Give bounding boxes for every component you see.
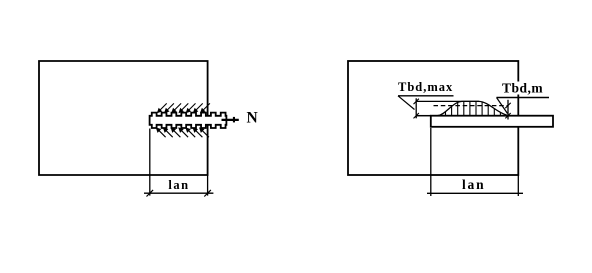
- tick at Tbd,max top: [414, 99, 419, 104]
- Tbd,max level line: [416, 100, 479, 102]
- tick at Tbd,m top: [505, 103, 510, 108]
- dimension line lan (left figure): [144, 192, 213, 194]
- lower bond-stress hatch arrows: [157, 128, 209, 137]
- leader for Tbd,max: [398, 96, 415, 110]
- svg-text:lan: lan: [462, 177, 485, 192]
- underline for Tbd,m: [497, 97, 550, 99]
- svg-text:N: N: [247, 109, 258, 126]
- force arrow N shaft: [222, 119, 239, 121]
- leader for Tbd,m: [497, 98, 508, 114]
- dashed mean level line Tbd,m: [434, 105, 508, 107]
- oblique tick right: [204, 190, 211, 197]
- force arrowhead: [233, 117, 235, 123]
- oblique tick left: [147, 190, 154, 197]
- baseline reference line left of bar: [416, 115, 431, 117]
- concrete block outline (left figure): [39, 61, 208, 175]
- concrete block outline (right figure): [348, 61, 518, 175]
- underline for Tbd,max: [398, 95, 454, 97]
- dimension extension line left (right figure): [430, 128, 432, 196]
- rebar (right figure): [431, 116, 553, 127]
- upper bond-stress hatch arrows: [158, 103, 210, 112]
- Tbd,m dimension vertical: [507, 100, 509, 120]
- tick at Tbd,m bottom: [505, 113, 510, 118]
- dimension extension line left (left figure): [149, 129, 151, 196]
- bond stress curve (bell): [438, 101, 508, 115]
- dimension line lan (right figure): [427, 192, 523, 194]
- hatch verticals under stress curve: [446, 101, 501, 115]
- white mask behind Tbd,m label: [500, 82, 546, 95]
- dimension extension line right (right figure): [517, 175, 519, 196]
- svg-text:lan: lan: [168, 178, 189, 192]
- svg-text:Tbd,max: Tbd,max: [398, 80, 453, 94]
- ribbed rebar (left figure): [150, 113, 227, 128]
- Tbd,max dimension vertical: [415, 98, 417, 118]
- dimension extension line right (left figure): [207, 175, 209, 196]
- svg-text:Tbd,m: Tbd,m: [502, 81, 543, 96]
- tick at Tbd,max bottom: [414, 113, 419, 118]
